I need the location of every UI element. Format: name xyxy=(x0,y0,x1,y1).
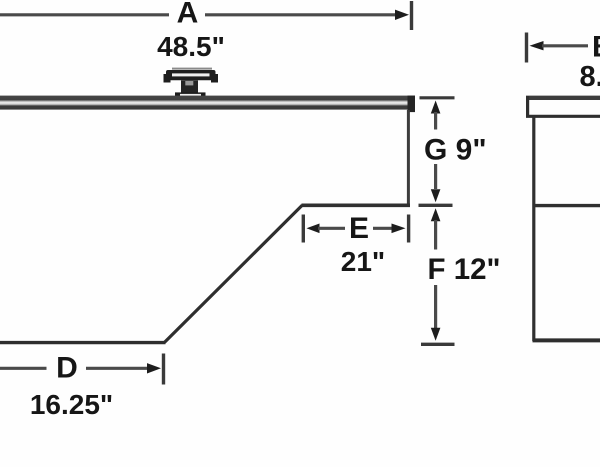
dimension E xyxy=(303,215,408,243)
step line xyxy=(302,204,411,208)
svg-text:8.5": 8.5" xyxy=(580,61,600,93)
svg-text:E: E xyxy=(349,212,369,245)
tick A right xyxy=(410,1,413,30)
dimension G xyxy=(420,98,455,203)
dimension F xyxy=(431,208,441,340)
svg-text:F 12": F 12" xyxy=(428,253,501,286)
end view cap xyxy=(526,96,600,117)
svg-text:A: A xyxy=(177,0,199,30)
tank bottom xyxy=(0,341,166,344)
svg-text:48.5": 48.5" xyxy=(157,31,225,62)
svg-text:B: B xyxy=(592,31,600,64)
end view body left edge xyxy=(532,117,535,341)
svg-text:16.25": 16.25" xyxy=(30,389,113,420)
diagonal edge xyxy=(165,205,303,342)
dimension D xyxy=(0,354,164,385)
end view bottom xyxy=(533,338,600,342)
dimension line B xyxy=(527,33,589,63)
filler cap xyxy=(164,68,219,99)
dimension line A xyxy=(0,10,409,20)
end view mid line xyxy=(533,204,600,207)
lid end cap xyxy=(408,96,416,113)
tank lid rail xyxy=(0,96,415,110)
svg-text:G 9": G 9" xyxy=(424,134,487,167)
tick G/F xyxy=(419,204,453,207)
svg-text:21": 21" xyxy=(341,246,385,277)
tank right edge xyxy=(407,110,410,204)
svg-text:D: D xyxy=(56,352,78,385)
tick F bottom xyxy=(421,343,455,346)
